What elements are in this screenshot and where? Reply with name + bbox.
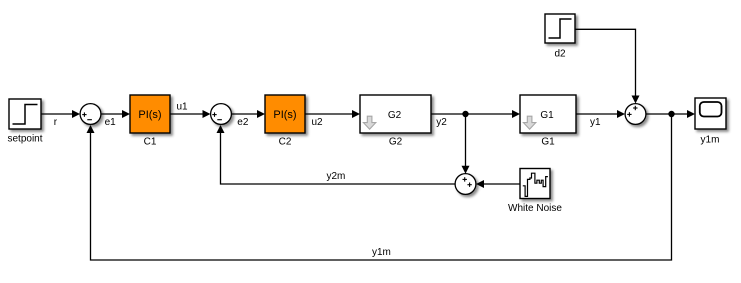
sum junction S2	[211, 104, 232, 125]
step source d2	[545, 14, 575, 43]
svg-text:G1: G1	[541, 137, 555, 148]
wire y2 to noise sum	[462, 114, 470, 174]
wire y1	[576, 110, 625, 118]
svg-text:G2: G2	[388, 110, 402, 121]
wire y2	[431, 110, 520, 118]
svg-text:d2: d2	[554, 49, 566, 60]
svg-text:u1: u1	[177, 101, 189, 112]
wire noise to sum4	[476, 180, 520, 188]
sum junction S3	[625, 104, 646, 125]
svg-text:PI(s): PI(s)	[273, 109, 296, 121]
wire y2m feedback	[217, 125, 456, 184]
svg-text:White Noise: White Noise	[508, 203, 562, 214]
wire u1	[170, 110, 211, 118]
sum junction S1	[80, 104, 101, 125]
svg-text:y1: y1	[590, 117, 601, 128]
junction node y1m	[668, 111, 674, 117]
scope y1m	[695, 98, 726, 129]
white noise source	[520, 169, 550, 199]
wire d2	[575, 29, 640, 103]
plant block G2	[360, 95, 431, 133]
svg-text:e2: e2	[237, 117, 249, 128]
PI controller C2	[265, 95, 305, 133]
svg-text:G1: G1	[540, 110, 554, 121]
svg-text:y1m: y1m	[701, 134, 720, 145]
svg-text:PI(s): PI(s)	[138, 109, 161, 121]
svg-text:C2: C2	[279, 137, 292, 148]
plant block G1	[520, 95, 576, 133]
svg-text:y2: y2	[436, 117, 447, 128]
wire sum3 to scope	[646, 110, 695, 118]
PI controller C1	[130, 95, 170, 133]
wire e2	[232, 110, 266, 118]
sum junction S4	[455, 174, 476, 195]
junction node y2	[462, 111, 468, 117]
svg-text:y2m: y2m	[327, 171, 346, 182]
wire y1m feedback	[87, 114, 672, 260]
svg-text:G2: G2	[389, 137, 403, 148]
svg-text:C1: C1	[144, 137, 157, 148]
svg-text:e1: e1	[105, 117, 117, 128]
wire r	[41, 110, 80, 118]
step source setpoint	[9, 99, 41, 129]
wire e1	[101, 110, 130, 118]
svg-text:setpoint: setpoint	[7, 133, 42, 144]
svg-text:y1m: y1m	[372, 247, 391, 258]
svg-text:u2: u2	[312, 117, 324, 128]
wire u2	[305, 110, 360, 118]
